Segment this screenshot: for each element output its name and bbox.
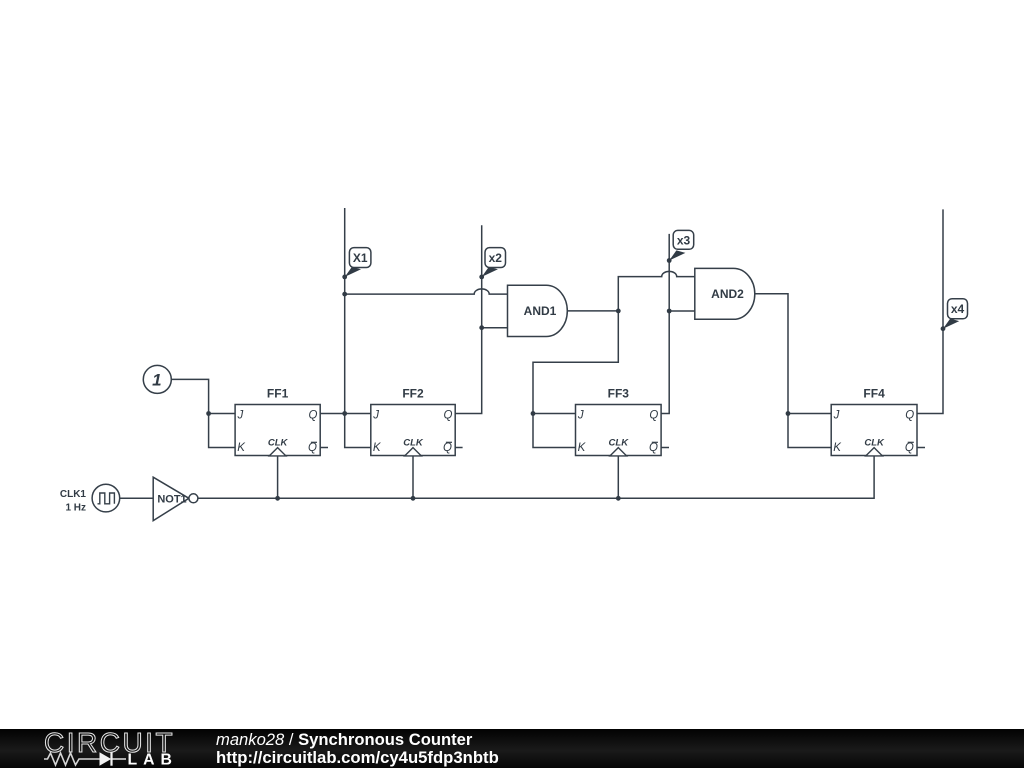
svg-text:NOT1: NOT1 [157,493,186,505]
svg-text:LAB: LAB [128,751,178,768]
svg-text:K: K [373,442,382,454]
svg-text:J: J [237,409,244,421]
svg-text:K: K [237,442,246,454]
svg-text:J: J [577,409,584,421]
svg-text:K: K [833,442,842,454]
svg-text:1 Hz: 1 Hz [65,503,86,514]
svg-text:x4: x4 [951,302,965,316]
svg-text:Q: Q [308,442,317,454]
svg-text:CLK: CLK [864,437,885,448]
svg-text:Q: Q [443,409,452,421]
svg-text:FF3: FF3 [608,387,630,401]
svg-text:J: J [372,409,379,421]
svg-text:X1: X1 [353,251,368,265]
svg-text:Q: Q [649,442,658,454]
svg-text:AND1: AND1 [524,304,557,318]
svg-text:x3: x3 [677,233,691,247]
svg-text:FF1: FF1 [267,387,289,401]
svg-text:Q: Q [905,409,914,421]
svg-text:1: 1 [152,371,161,390]
svg-text:Q: Q [443,442,452,454]
svg-text:FF4: FF4 [863,387,885,401]
svg-text:Q: Q [905,442,914,454]
svg-text:Q: Q [308,409,317,421]
svg-text:CLK1: CLK1 [60,489,87,500]
svg-text:Q: Q [649,409,658,421]
svg-text:CLK: CLK [609,437,630,448]
svg-text:x2: x2 [489,251,503,265]
svg-text:CLK: CLK [268,437,289,448]
svg-text:J: J [833,409,840,421]
svg-text:CLK: CLK [403,437,424,448]
svg-text:FF2: FF2 [402,387,424,401]
svg-text:K: K [578,442,587,454]
svg-text:AND2: AND2 [711,287,744,301]
